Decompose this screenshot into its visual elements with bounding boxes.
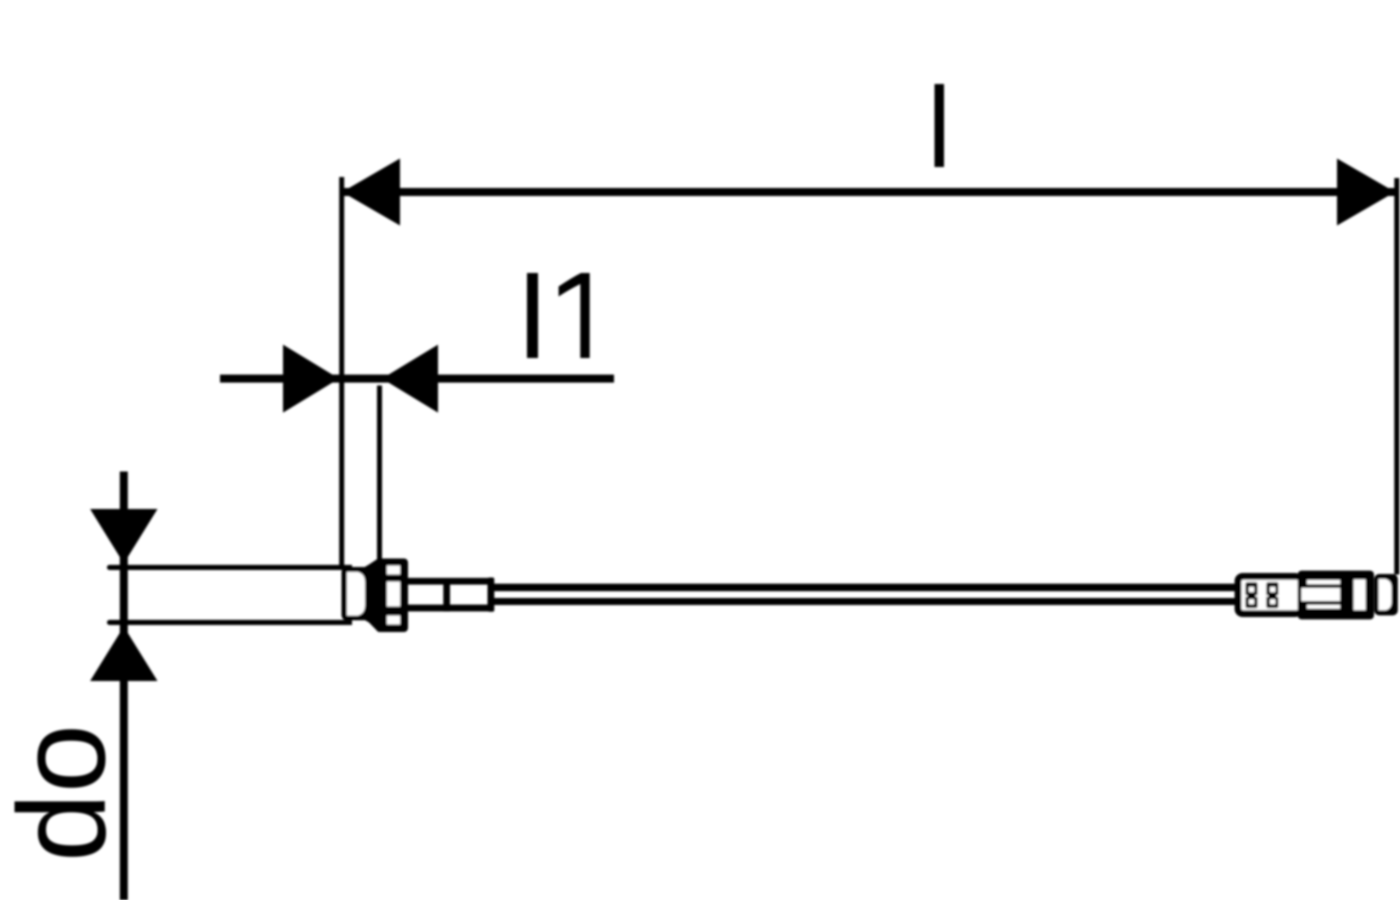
dimension l : line — [342, 188, 1395, 196]
connector body 2 top slit — [1307, 580, 1340, 584]
connector contact A top hole — [1249, 587, 1254, 592]
shaft end cap — [488, 578, 495, 612]
hex nut bottom facet — [387, 616, 400, 625]
connector body 2 plate window — [1301, 588, 1340, 601]
cable top line — [494, 584, 1241, 592]
connector collar window — [1354, 580, 1366, 611]
fitting taper — [360, 559, 387, 632]
dimension l : label — [935, 84, 945, 167]
cable bottom line — [494, 598, 1241, 605]
probe body cylinder : top line — [107, 565, 352, 570]
dimension l : right arrowhead — [1337, 159, 1395, 226]
dimension l1 : label letter l — [527, 273, 538, 358]
dimension l1 : left arrowhead (points right) — [283, 345, 339, 413]
connector contact A side notches — [1245, 595, 1247, 597]
dimension l : left extension line — [339, 177, 344, 568]
connector contact A bottom hole — [1249, 599, 1254, 604]
dimension l1 : right extension line — [377, 386, 382, 560]
fitting collar inner face — [347, 572, 365, 616]
probe body cylinder : bottom line — [107, 620, 352, 625]
connector end cap inner — [1379, 579, 1392, 610]
connector contact B top hole — [1270, 587, 1275, 592]
dimension l1 : line — [220, 375, 614, 383]
connector end cap — [1374, 574, 1398, 615]
connector body 2 — [1298, 571, 1374, 620]
svg-text:do: do — [0, 724, 132, 862]
dimension l1 : right arrowhead (points left) — [382, 345, 438, 413]
connector body 2 bottom slit — [1307, 605, 1340, 609]
shaft bottom edge — [408, 605, 495, 612]
connector contact B — [1266, 582, 1278, 608]
dimension l : left arrowhead — [342, 159, 400, 226]
dimension do : bottom arrowhead (points up) — [90, 627, 157, 682]
connector body 1 inner — [1241, 580, 1299, 610]
dimension l : right extension line — [1394, 178, 1399, 575]
dimension l1 : label digit 1 — [559, 273, 590, 358]
connector contact B bottom hole — [1270, 599, 1275, 604]
connector contact B side notches — [1266, 595, 1268, 597]
dimension do : top arrowhead (points down) — [90, 509, 157, 564]
shaft top edge — [408, 578, 495, 585]
connector body 1 outline — [1235, 573, 1303, 617]
connector contact A — [1245, 582, 1257, 608]
hex nut top facet — [387, 566, 400, 575]
fitting collar — [342, 567, 370, 620]
hex nut middle facet — [387, 582, 400, 607]
shaft divider — [443, 578, 450, 611]
dimension do : line — [120, 472, 128, 900]
fitting hex nut — [376, 559, 408, 633]
